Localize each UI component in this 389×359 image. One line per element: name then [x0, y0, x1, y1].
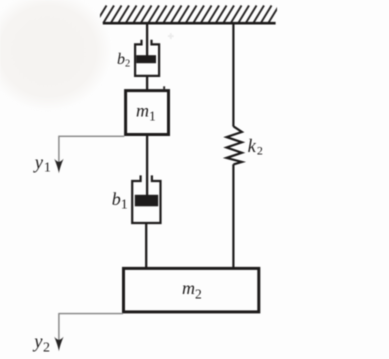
- svg-text:y2: y2: [32, 333, 50, 356]
- mass m2: [124, 268, 259, 312]
- spring k2 zigzag: [227, 126, 242, 164]
- svg-text:b1: b1: [112, 189, 128, 212]
- y2 reference line: [58, 313, 60, 340]
- spring k2 lower wire: [232, 164, 234, 268]
- faint cross artifact: [168, 33, 174, 39]
- ceiling hatching: [96, 6, 280, 24]
- background blob (scan artifact, top-left): [0, 0, 112, 111]
- svg-text:k2: k2: [248, 137, 263, 158]
- wire: ceiling to damper b2 piston rod: [146, 24, 148, 58]
- y1 reference line: [58, 136, 60, 163]
- wire: m1 bottom-left to y1 reference: [59, 135, 124, 137]
- damper b2 piston: [136, 55, 156, 63]
- mass m1: [126, 91, 169, 135]
- ceiling line: [103, 22, 276, 25]
- y1 arrowhead: [54, 159, 63, 174]
- wire: m2 bottom-left to y2 reference: [59, 313, 123, 315]
- svg-text:b2: b2: [117, 51, 130, 70]
- spring k2 upper wire: [232, 24, 234, 127]
- wire: damper b1 to mass m2: [145, 223, 147, 269]
- damper b2 cylinder: [135, 40, 159, 76]
- y2 arrowhead: [54, 337, 63, 352]
- svg-text:y1: y1: [33, 154, 51, 176]
- wire: m1 to damper b1 piston rod: [146, 136, 148, 197]
- damper b1 piston: [135, 195, 158, 207]
- wire: damper b2 to mass m1: [146, 76, 148, 91]
- tick artifact above m1: [163, 86, 165, 89]
- damper b1 cylinder: [132, 175, 160, 223]
